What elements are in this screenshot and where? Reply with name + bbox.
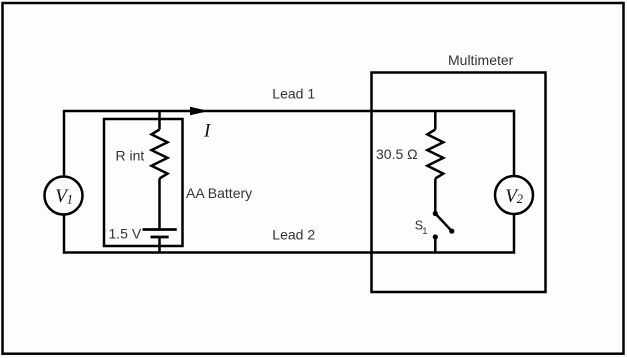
switch S1 (open blade with contact dots) [433, 211, 455, 240]
label S1 [415, 218, 428, 237]
svg-text:Lead 1: Lead 1 [272, 85, 315, 101]
svg-text:1: 1 [67, 193, 73, 207]
svg-text:1: 1 [422, 226, 427, 237]
battery enclosure box [104, 119, 183, 246]
multimeter enclosure box [372, 73, 546, 293]
wire: 30.5 ohm / switch branch verticals [434, 111, 437, 253]
wire: main loop (Lead 1 top, left wire, Lead 2 bottom, V2 branch right) [64, 111, 514, 253]
resistor R int [152, 130, 168, 179]
voltmeter V2 [495, 176, 533, 214]
svg-text:AA Battery: AA Battery [186, 185, 252, 201]
voltmeter V1 [45, 177, 83, 215]
resistor 30.5 ohm [427, 130, 443, 179]
svg-text:Lead 2: Lead 2 [272, 227, 315, 243]
current arrow I on Lead 1 [191, 107, 207, 114]
svg-text:R int: R int [116, 148, 145, 164]
svg-text:1.5 V: 1.5 V [109, 226, 142, 242]
svg-text:Multimeter: Multimeter [448, 52, 514, 68]
wire: battery branch vertical segments [158, 111, 161, 253]
svg-text:30.5 Ω: 30.5 Ω [376, 146, 418, 162]
battery B1 (1.5 V cell plates) [143, 230, 177, 238]
svg-text:2: 2 [517, 192, 523, 206]
